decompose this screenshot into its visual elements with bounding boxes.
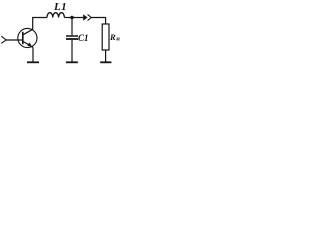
wire: collector up to top rail [33, 18, 47, 30]
wire: resistor bottom lead [105, 50, 107, 62]
wire: input to base [6, 39, 23, 41]
wire: capacitor top lead [71, 18, 73, 36]
svg-text:L1: L1 [53, 1, 67, 13]
transistor Q1 base bar [22, 32, 24, 44]
input terminal chevron [1, 36, 6, 43]
transistor Q1 envelope circle [18, 28, 37, 47]
svg-text:C1: C1 [78, 33, 89, 43]
ground (capacitor) [66, 61, 78, 63]
resistor Rn body [102, 24, 109, 50]
transistor Q1 emitter arrowhead [27, 42, 32, 46]
node junction dot [70, 16, 73, 19]
output arrow (open chevron) [88, 14, 92, 20]
capacitor C1 bottom plate [66, 38, 78, 40]
capacitor C1 top plate [66, 35, 78, 37]
wire: arrow to resistor [91, 18, 106, 25]
transistor Q1 emitter stroke with arrow [23, 41, 33, 47]
output arrow (filled head) [83, 14, 87, 20]
wire: emitter down to ground [32, 47, 34, 61]
transistor Q1 collector stroke [23, 29, 33, 35]
wire: inductor to arrow [64, 17, 83, 19]
svg-text:R: R [109, 32, 116, 42]
svg-text:н: н [116, 36, 120, 43]
ground (resistor) [100, 61, 111, 63]
ground (emitter) [27, 61, 39, 63]
inductor L1 (3 humps) [47, 13, 64, 18]
wire: capacitor bottom lead [71, 40, 73, 62]
